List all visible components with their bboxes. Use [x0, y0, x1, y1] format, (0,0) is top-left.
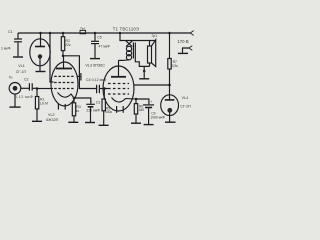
svg-text:С3: С3 [96, 100, 101, 104]
capacitor C3 [74, 98, 91, 104]
wire top supply rail [18, 32, 190, 34]
wire grid VL2 [37, 88, 53, 90]
resistor R2 [62, 33, 64, 37]
ground (R5) [99, 124, 109, 126]
tube VL2 pentode [51, 62, 78, 106]
svg-text:0,12 мкФ: 0,12 мкФ [15, 95, 33, 99]
ground (VL1) [36, 71, 46, 73]
tube VL4 gas stabilizer [169, 85, 171, 100]
wire terminal to ground [183, 48, 189, 53]
speaker Гр1 [149, 41, 151, 47]
node rail-C5 [94, 32, 97, 35]
resistor R7 [169, 33, 171, 59]
svg-text:1,6 М: 1,6 М [39, 102, 48, 106]
transformer T1 primary feed [120, 33, 156, 41]
node rail-R2 [62, 32, 65, 35]
svg-text:430к: 430к [105, 110, 113, 114]
wire anode VL2 to C4 [63, 56, 96, 89]
svg-text:Т1 ТВС110Э: Т1 ТВС110Э [113, 27, 139, 32]
ground (C3) [85, 122, 95, 124]
node rail-VL1 [39, 32, 42, 35]
svg-text:VL4: VL4 [182, 96, 189, 100]
transformer T1 winding [126, 41, 132, 47]
node cathode VL3 [135, 98, 138, 101]
node screen rail VL4 [168, 84, 171, 87]
ground (C9) [144, 124, 154, 126]
wire anode lead VL2 [63, 56, 65, 69]
node speaker-ground [143, 70, 146, 73]
svg-text:+: + [150, 100, 152, 104]
node grid VL3 [103, 87, 106, 90]
wire screen grid feed VL2 [50, 33, 54, 82]
node rail-screen feed [49, 32, 52, 35]
svg-text:220 мкФ: 220 мкФ [86, 109, 100, 113]
tube VL1 gas stabilizer [30, 39, 50, 66]
svg-text:22к: 22к [65, 43, 71, 47]
node rail-R7 [168, 32, 171, 35]
capacitor C9 [136, 99, 149, 104]
node cathode VL2 [73, 97, 76, 100]
wire grid VL3 [105, 88, 109, 90]
transformer T1 core [132, 43, 134, 59]
svg-text:47 мкФ: 47 мкФ [98, 45, 110, 49]
capacitor C2 [28, 83, 30, 90]
svg-text:Пр1: Пр1 [80, 27, 86, 31]
ground (speaker) [139, 78, 149, 80]
svg-text:6Ж32П: 6Ж32П [46, 118, 58, 122]
svg-text:VL1: VL1 [18, 64, 25, 68]
capacitor C4 [96, 85, 98, 93]
svg-text:Гр1: Гр1 [152, 34, 158, 38]
terminal common [189, 46, 193, 51]
node grid VL2 [36, 87, 39, 90]
svg-text:+: + [90, 100, 92, 104]
svg-text:1000 мкФ: 1000 мкФ [150, 116, 165, 120]
svg-text:R7: R7 [173, 60, 177, 64]
svg-text:VL3 6П36С: VL3 6П36С [85, 64, 105, 68]
svg-text:1к: 1к [76, 109, 80, 113]
resistor R5 [103, 89, 105, 100]
tube VL3 output pentode [103, 66, 134, 111]
svg-text:СГ-2П: СГ-2П [180, 104, 191, 108]
svg-text:180: 180 [139, 108, 145, 112]
fuse Пр1 [80, 30, 86, 33]
svg-text:1 мкФ: 1 мкФ [1, 47, 11, 51]
resistor R1 [36, 89, 38, 97]
ground (R3) [68, 121, 78, 123]
resistor R6 [135, 99, 137, 104]
ground (R1) [32, 120, 42, 122]
ground (C5) [90, 58, 100, 60]
svg-text:С2: С2 [24, 77, 29, 81]
svg-text:СГ-1П: СГ-1П [16, 70, 27, 74]
svg-text:С1: С1 [8, 30, 13, 34]
ground (terminal) [178, 52, 188, 54]
svg-text:VL2: VL2 [48, 113, 55, 117]
svg-text:С5: С5 [97, 35, 101, 39]
svg-text:170 В: 170 В [177, 39, 188, 44]
ground (R6) [131, 122, 141, 124]
terminal +170V [190, 31, 194, 36]
connector Гн input [9, 83, 21, 95]
ground (C1) [13, 56, 23, 58]
svg-text:Гн: Гн [9, 76, 13, 80]
wire screen VL3 to VL4 [134, 84, 170, 86]
svg-text:3,9к: 3,9к [172, 64, 179, 68]
resistor R3 [73, 98, 75, 103]
wire secondary to ground [135, 59, 149, 67]
ground (input) [9, 106, 20, 108]
node anode VL2 [62, 55, 65, 58]
capacitor C1 [17, 33, 19, 39]
capacitor C5 [94, 33, 96, 41]
node rail-T1 [119, 32, 122, 35]
ground (VL4) [165, 121, 176, 123]
